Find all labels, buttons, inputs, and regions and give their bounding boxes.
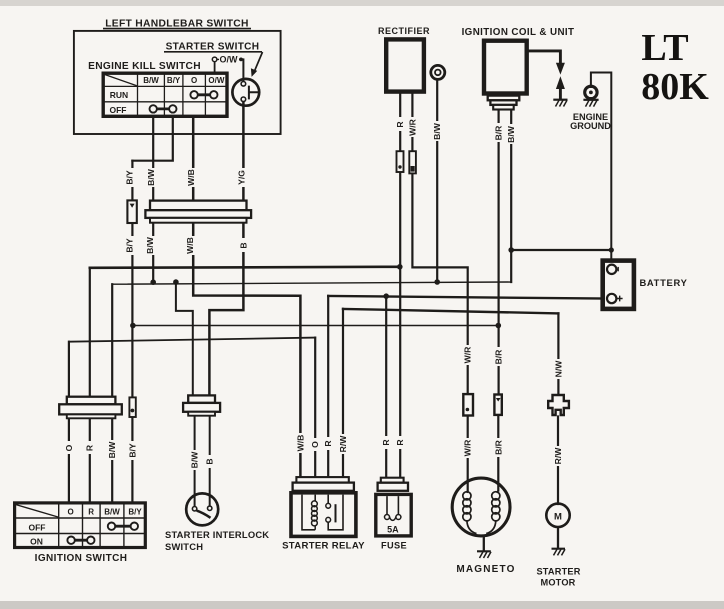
svg-text:LT: LT (641, 27, 688, 69)
label W/B relay (295, 433, 305, 453)
label B/R coil (494, 123, 504, 142)
connector 1-pin B/Y upper (127, 200, 136, 223)
junction B/Y bus / B/R (496, 323, 502, 329)
starter motor circle (546, 504, 569, 527)
svg-text:R: R (395, 121, 405, 128)
label W/R magneto upper (463, 345, 473, 365)
wire R/W bus (relay to starter motor) (343, 309, 558, 314)
wire W/R below connector into magneto (467, 416, 469, 491)
svg-text:W/R: W/R (463, 439, 473, 456)
svg-text:5A: 5A (387, 525, 399, 535)
wire starter switch upper O/W (242, 59, 244, 81)
label B/W interlock (190, 450, 200, 470)
connector 1-pin B/R magneto (494, 395, 501, 415)
connector 4-pin starter relay (293, 477, 354, 491)
svg-text:B/R: B/R (494, 349, 504, 365)
wire B/W interlock below connector (194, 415, 196, 507)
wire O/W jumper horizontal (217, 58, 242, 60)
svg-text:M: M (554, 511, 562, 522)
label W/B upper (186, 168, 196, 187)
wire B/W kill switch vertical (152, 117, 154, 282)
svg-text:IGNITION SWITCH: IGNITION SWITCH (35, 553, 128, 564)
svg-text:ENGINE KILL SWITCH: ENGINE KILL SWITCH (88, 61, 201, 72)
junction interlock link / bus (173, 279, 179, 285)
wire O relay vertical (314, 338, 316, 478)
svg-text:O: O (191, 76, 197, 85)
label O relay (310, 438, 320, 451)
label B/W mid (145, 236, 155, 255)
label W/R rectifier (407, 117, 417, 137)
magneto ground wire (483, 536, 485, 552)
svg-text:W/B: W/B (186, 169, 196, 186)
ignition coil base stack (488, 96, 520, 110)
ignition OFF contact bar (112, 525, 135, 528)
svg-text:O: O (67, 508, 73, 517)
label O/W jumper (219, 54, 239, 65)
svg-text:N/W: N/W (553, 360, 563, 378)
label R fuse1 (381, 436, 391, 449)
connector 3-pin ignition switch (59, 397, 122, 419)
svg-text:R/W: R/W (338, 435, 348, 453)
label B/Y upper (125, 168, 135, 187)
label B/W upper (146, 168, 156, 187)
svg-text:B/W: B/W (146, 168, 156, 186)
wire B/Y bus (133, 325, 498, 327)
label B/W coil (506, 124, 516, 144)
label R relay (323, 437, 333, 450)
rectifier box (386, 39, 424, 91)
svg-text:B/W: B/W (104, 508, 120, 517)
junction kill B/W / bus (150, 279, 156, 285)
label B/W ignition (107, 440, 117, 460)
battery minus terminal (607, 265, 616, 274)
svg-text:BATTERY: BATTERY (639, 277, 687, 288)
wire B/W interlock link (176, 282, 193, 397)
svg-text:R/W: R/W (553, 447, 563, 465)
svg-text:B/R: B/R (494, 125, 504, 141)
junction B/W bus / rectifier B/W (434, 279, 440, 285)
rectifier bolt terminal (431, 65, 445, 79)
svg-text:IGNITION COIL & UNIT: IGNITION COIL & UNIT (462, 27, 575, 38)
spark plug ground (553, 99, 567, 101)
label R fuse2 (395, 436, 405, 449)
spark plug wire (527, 51, 561, 63)
svg-text:W/B: W/B (185, 237, 195, 254)
connector 2-pin interlock (183, 395, 220, 415)
ignition switch table (14, 502, 146, 548)
svg-text:MAGNETO: MAGNETO (456, 564, 515, 575)
starter motor ground (557, 527, 559, 549)
connector 2-pin fuse (378, 478, 408, 491)
kill switch table (103, 73, 227, 117)
fuse box (376, 494, 411, 536)
svg-text:B/Y: B/Y (125, 170, 135, 185)
wire R rectifier to fuse vertical (399, 94, 401, 479)
wire B interlock below connector (209, 415, 211, 507)
wire B/W coil vertical (510, 110, 512, 282)
label W/R magneto lower (463, 438, 473, 458)
svg-text:B/Y: B/Y (127, 443, 137, 458)
label N/W starter upper (553, 359, 563, 379)
svg-text:B: B (205, 458, 215, 464)
wire R/W relay vertical (342, 309, 344, 478)
vertical wire labels (64, 117, 564, 470)
svg-text:O: O (310, 441, 320, 448)
wire O/W jumper from kill switch (214, 61, 216, 72)
wire B/R below connector into magneto (497, 415, 499, 491)
svg-text:B/Y: B/Y (124, 238, 134, 253)
svg-text:R: R (381, 439, 391, 446)
label O ignition (64, 441, 74, 454)
magneto left coil (463, 491, 477, 534)
O/W jumper terminal circle (212, 57, 217, 62)
svg-text:RUN: RUN (110, 90, 128, 100)
fuse element (387, 496, 398, 514)
scan band bottom (0, 601, 724, 609)
svg-text:B/R: B/R (494, 439, 504, 455)
svg-text:ON: ON (30, 536, 43, 546)
wire B/W ignition switch vertical (111, 284, 113, 502)
svg-text:B/Y: B/Y (128, 508, 142, 517)
starter relay box (291, 493, 356, 537)
connector 1-pin B/Y lower (129, 397, 135, 417)
kill switch RUN contact bar (194, 93, 214, 96)
scan band top (0, 0, 724, 6)
wire B/Y main vertical (131, 161, 133, 502)
svg-text:W/B: W/B (295, 435, 305, 452)
svg-text:B: B (238, 242, 248, 248)
svg-text:GROUND: GROUND (570, 121, 611, 131)
label Y/G upper (236, 168, 246, 187)
svg-text:RECTIFIER: RECTIFIER (378, 26, 430, 36)
junction coil B/W / battery minus (508, 247, 514, 253)
starter switch circle (232, 79, 259, 106)
svg-text:B/Y: B/Y (167, 76, 181, 85)
label B mid (238, 238, 248, 252)
svg-text:R: R (88, 508, 94, 517)
relay coil loops (312, 501, 318, 530)
svg-text:R: R (395, 439, 405, 446)
label W/B mid (185, 236, 195, 255)
label R ignition (85, 441, 95, 454)
battery plus terminal (607, 294, 616, 303)
label R/W relay (338, 434, 348, 454)
svg-text:STARTER SWITCH: STARTER SWITCH (166, 42, 260, 53)
wire Y/G starter switch to B jog (209, 102, 243, 398)
wire W/R rectifier to magneto (412, 94, 467, 395)
svg-text:STARTER INTERLOCK: STARTER INTERLOCK (165, 529, 269, 540)
svg-text:OFF: OFF (29, 522, 46, 532)
svg-text:Y/G: Y/G (236, 170, 246, 185)
svg-text:O: O (64, 444, 74, 451)
arrow to starter switch (255, 52, 263, 71)
starter interlock switch circle (186, 493, 218, 525)
starter switch terminals (241, 82, 246, 87)
wire N/W starter motor upper (557, 313, 559, 396)
svg-text:O/W: O/W (208, 76, 224, 85)
engine ground bar and hatch (583, 99, 598, 101)
junction fuse R / battery plus bus (383, 293, 389, 299)
junction battery minus corner (609, 247, 614, 252)
wire O bus (ignition O to relay O) (69, 338, 315, 342)
wire battery minus link (511, 249, 611, 251)
svg-text:B/W: B/W (506, 125, 516, 143)
connector 1-pin W/R rectifier (409, 151, 416, 173)
ignition ON contact bar (71, 539, 91, 542)
connector cross N/W starter motor (548, 395, 569, 415)
wire B/R coil to magneto (498, 110, 500, 394)
wire W/B kill switch to starter relay (193, 117, 300, 478)
interlock lever (197, 511, 211, 518)
label R rectifier (395, 117, 405, 131)
svg-text:B/W: B/W (107, 441, 117, 459)
svg-text:O/W: O/W (220, 55, 239, 65)
connector 4-pin handlebar (145, 201, 251, 223)
wire B/Y kill switch jog (132, 117, 172, 161)
svg-text:W/R: W/R (407, 118, 417, 135)
svg-text:STARTER RELAY: STARTER RELAY (282, 540, 365, 551)
wire R ignition vertical (89, 268, 91, 502)
interlock terminals (192, 507, 196, 511)
magneto circle (452, 478, 510, 536)
connector 1-pin W/R magneto (463, 394, 473, 415)
O/W jumper dot (239, 58, 243, 62)
relay coil branch (302, 495, 315, 530)
svg-text:80K: 80K (641, 66, 709, 108)
wire battery plus bus (328, 296, 607, 299)
spark plug up arrow (556, 76, 565, 89)
svg-text:STARTER: STARTER (536, 566, 580, 576)
wire B/W thin bus (ignition to coil) (112, 282, 511, 284)
svg-text:FUSE: FUSE (381, 540, 407, 550)
spark plug down arrow (556, 63, 565, 75)
svg-text:B/W: B/W (145, 236, 155, 254)
connector 1-pin R rectifier (397, 151, 404, 172)
svg-text:R: R (85, 444, 95, 451)
junction R bus / rectifier R (397, 264, 403, 270)
magneto right coil (486, 491, 500, 534)
wire R fuse vertical (385, 296, 387, 478)
svg-text:B/W: B/W (190, 451, 200, 469)
label B/W rectifier (432, 121, 442, 141)
engine ground ring terminal (585, 86, 597, 98)
wire engine ground to battery minus (591, 73, 611, 265)
wire O ignition vertical (68, 342, 70, 502)
label B/R magneto upper (494, 347, 504, 366)
ignition coil box (484, 41, 527, 94)
label B/Y mid (124, 236, 134, 255)
kill switch OFF contact bar (153, 108, 173, 111)
box left handlebar switch (74, 31, 281, 134)
svg-text:LEFT HANDLEBAR SWITCH: LEFT HANDLEBAR SWITCH (105, 18, 249, 29)
relay contacts (328, 495, 343, 530)
wire R/W starter motor lower (557, 417, 559, 505)
svg-text:R: R (323, 440, 333, 447)
wire R relay vertical (327, 296, 329, 478)
wire R bus (ignition R to rectifier R junction) (90, 267, 400, 268)
svg-text:W/R: W/R (463, 346, 473, 363)
svg-text:SWITCH: SWITCH (165, 541, 203, 552)
label B/Y ignition (127, 441, 137, 460)
label R/W starter lower (553, 446, 563, 466)
battery box (603, 261, 634, 309)
wire B/W rectifier bolt drop (436, 79, 438, 282)
svg-text:B/W: B/W (143, 76, 159, 85)
svg-text:B/W: B/W (432, 122, 442, 140)
label B/R magneto lower (494, 438, 504, 457)
label B interlock (205, 455, 215, 468)
svg-text:MOTOR: MOTOR (540, 577, 575, 587)
svg-text:OFF: OFF (110, 105, 127, 115)
starter switch button bar (249, 86, 259, 100)
junction B/Y bus left (130, 323, 136, 329)
